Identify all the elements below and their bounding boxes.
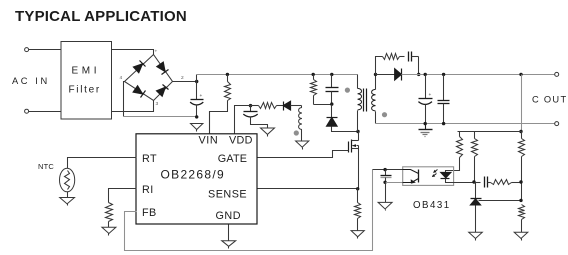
wire AC bottom to EMI xyxy=(29,111,62,113)
node junction cap1 bottom xyxy=(424,122,427,125)
resistor R5 on RI xyxy=(106,203,113,222)
svg-text:RI: RI xyxy=(142,184,154,196)
wire GND pin stem xyxy=(228,225,230,241)
wire drain vertical xyxy=(358,132,360,141)
ground below divider xyxy=(514,232,528,238)
node junction bus / clamp cap xyxy=(330,73,333,76)
node junction LED cathode / TL431 xyxy=(472,180,475,183)
wire feedback vertical from rail xyxy=(521,75,523,132)
wire source to sense node xyxy=(358,149,360,189)
ground below RI resistor xyxy=(102,227,116,233)
node junction output cap2 top xyxy=(442,73,445,76)
node junction source/sense xyxy=(356,187,359,190)
transistor Q1 MOSFET xyxy=(348,142,350,153)
diode D3 bridge bottom-left xyxy=(133,86,143,94)
ground secondary (earth) xyxy=(425,124,427,130)
wire GATE routing xyxy=(258,151,349,158)
node AC input terminal bottom xyxy=(25,109,29,113)
node junction drain / clamp xyxy=(356,130,359,133)
wire snubber to diode cathode xyxy=(418,57,420,75)
ground below aux winding xyxy=(296,141,309,147)
node AC input terminal top xyxy=(25,48,29,52)
optocoupler U2 LED xyxy=(441,172,451,178)
node junction ref/divider xyxy=(519,199,522,202)
svg-text:NTC: NTC xyxy=(38,162,54,171)
capacitor C4 secondary snubber xyxy=(400,56,405,58)
diode D2 bridge top-right xyxy=(157,62,166,72)
wire startup resistor to VIN xyxy=(210,101,228,134)
svg-text:Filter: Filter xyxy=(69,85,101,96)
node junction bulk cap bottom xyxy=(195,115,198,118)
resistor R3 clamp xyxy=(313,75,315,80)
ground IC GND xyxy=(222,241,236,247)
svg-text:EMI: EMI xyxy=(72,66,101,77)
ground below VDD cap xyxy=(261,128,275,134)
svg-text:TYPICAL APPLICATION: TYPICAL APPLICATION xyxy=(15,8,187,25)
resistor R6 secondary snubber xyxy=(376,57,383,75)
wire SENSE routing xyxy=(258,188,358,190)
node junction comp network / divider xyxy=(519,180,522,183)
wire FB routing loop to optocoupler xyxy=(125,170,373,251)
wire R7 to LED anode xyxy=(446,158,460,173)
wire bridge left corner to primary return xyxy=(124,82,125,117)
capacitor C8 on FB xyxy=(385,170,387,176)
node junction snubber/rail xyxy=(417,73,420,76)
svg-text:OB431: OB431 xyxy=(413,200,451,211)
wire VDD cap to ground xyxy=(251,117,268,129)
wire AC top to EMI xyxy=(29,49,62,51)
diode D7 output rectifier xyxy=(395,69,402,81)
svg-text:+: + xyxy=(200,94,203,99)
svg-text:SENSE: SENSE xyxy=(208,188,247,200)
node junction output cap1 top xyxy=(424,73,427,76)
ground below OB431 xyxy=(469,232,483,238)
resistor R7 opto bias xyxy=(459,132,461,137)
ground below NTC xyxy=(60,198,75,204)
wire EMI top output to bridge top xyxy=(112,50,154,55)
capacitor C6 output ceramic xyxy=(443,75,445,101)
node output terminal minus xyxy=(555,122,559,126)
node junction clamp diode xyxy=(330,102,333,105)
wire RI routing xyxy=(109,189,137,203)
svg-text:GND: GND xyxy=(216,210,242,222)
node junction bus / startup resistor xyxy=(226,73,229,76)
node aux winding phase dot xyxy=(294,130,299,135)
resistor R10 compensation xyxy=(488,182,491,184)
node secondary phase dot xyxy=(382,112,387,117)
transformer T1 secondary winding xyxy=(372,89,376,111)
wire bridge right corner to bus xyxy=(173,81,197,83)
node junction bus / clamp resistor xyxy=(312,73,315,76)
capacitor C7 compensation xyxy=(475,182,481,184)
svg-text:+: + xyxy=(155,50,158,55)
svg-text:C OUT: C OUT xyxy=(532,95,567,105)
optocoupler U2 light arrows xyxy=(434,170,438,173)
svg-text:FB: FB xyxy=(142,207,157,219)
node junction opto cap bottom xyxy=(383,181,386,184)
wire VIN pin stub xyxy=(209,112,211,134)
wire VDD pin riser xyxy=(235,106,251,134)
transformer T1 primary winding xyxy=(357,75,359,89)
resistor R1 startup xyxy=(227,75,229,82)
wire secondary output rail xyxy=(402,74,555,76)
node primary phase dot xyxy=(345,88,350,93)
wire TL431 ref xyxy=(479,200,522,202)
wire FB to opto collector xyxy=(373,169,403,171)
node output terminal plus xyxy=(555,72,559,76)
capacitor C5 output electrolytic xyxy=(425,75,427,99)
node junction secondary/snubber xyxy=(374,73,377,76)
svg-text:RT: RT xyxy=(142,153,157,165)
wire RT to NTC xyxy=(68,158,137,169)
capacitor C2 VDD xyxy=(250,106,252,112)
ground below opto cap xyxy=(378,202,392,209)
svg-text:4: 4 xyxy=(120,75,123,81)
wire bus riser at bulk cap xyxy=(196,75,198,82)
wire divider top line xyxy=(458,131,522,133)
svg-text:VDD: VDD xyxy=(229,135,253,147)
svg-text:OB2268/9: OB2268/9 xyxy=(161,168,225,182)
EMI filter block xyxy=(61,42,112,120)
svg-text:2: 2 xyxy=(181,75,184,81)
thermistor NTC xyxy=(60,168,75,192)
wire clamp diode to drain node xyxy=(332,127,359,132)
diode D4 bridge bottom-right xyxy=(156,87,165,96)
wire secondary bottom rail xyxy=(376,123,555,125)
transformer aux winding xyxy=(299,108,302,130)
svg-text:3: 3 xyxy=(156,101,159,107)
capacitor C1 bulk input xyxy=(196,82,198,100)
wire main DC bus (top, primary) xyxy=(197,74,358,76)
shunt regulator U3 OB431 xyxy=(475,183,477,199)
diode D6 clamp xyxy=(331,105,333,118)
node junction feedback tap xyxy=(519,73,522,76)
wire opto cap to ground xyxy=(385,183,387,203)
diode D5 aux rectifier xyxy=(277,105,283,107)
svg-text:GATE: GATE xyxy=(218,153,247,165)
diode D1 bridge top-left xyxy=(133,64,142,73)
wire opto emitter xyxy=(386,182,403,184)
wire primary return line xyxy=(124,116,197,118)
node junction cap2 bottom xyxy=(442,122,445,125)
ground below sense resistor xyxy=(351,231,364,237)
node junction VDD xyxy=(249,104,252,107)
IC U1 OB2268/9 xyxy=(136,134,257,224)
resistor R11 divider lower xyxy=(519,205,525,220)
resistor R4 current sense xyxy=(357,189,359,203)
node junction bridge/bulk-cap xyxy=(195,80,198,83)
node junction divider top xyxy=(519,130,522,133)
wire secondary rail to output diode xyxy=(376,74,396,76)
wire LED cathode out xyxy=(446,179,475,183)
resistor R2 aux supply xyxy=(251,105,259,107)
wire clamp RC common xyxy=(314,104,332,106)
svg-text:VIN: VIN xyxy=(199,135,219,147)
resistor R8 across LED xyxy=(474,132,476,139)
transformer T1 core xyxy=(363,89,365,112)
resistor R9 divider upper xyxy=(521,132,523,139)
optocoupler U2 box xyxy=(403,167,454,186)
node junction opto cap top xyxy=(383,168,386,171)
ground below bulk cap xyxy=(191,124,203,130)
wire EMI bottom output to bridge bottom xyxy=(112,101,154,112)
capacitor C3 clamp xyxy=(331,75,333,88)
optocoupler U2 phototransistor xyxy=(418,170,420,183)
svg-text:AC IN: AC IN xyxy=(12,76,50,86)
svg-text:+: + xyxy=(429,93,432,98)
diode bridge wiring (diamond) xyxy=(125,55,173,101)
